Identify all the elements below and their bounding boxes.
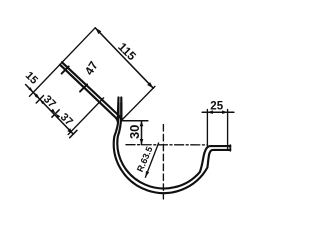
extension line E2 (junction to 115 right arrow) xyxy=(121,86,155,121)
30 dim: top extension line xyxy=(123,120,148,122)
tick on chain at 37/37 division xyxy=(52,110,59,117)
tick on chain at 15/37 division xyxy=(36,96,43,103)
arrowhead 115 right xyxy=(147,82,153,88)
25 dim: right extension line xyxy=(227,110,229,149)
arrowhead chain end xyxy=(67,128,73,134)
svg-text:25: 25 xyxy=(210,100,223,112)
arrowhead 30 top xyxy=(140,121,144,127)
arrowhead 25 left xyxy=(207,110,213,114)
svg-text:115: 115 xyxy=(115,40,139,64)
30 dim line vertical xyxy=(141,121,143,145)
tick on strap (lower) xyxy=(80,84,87,91)
strap lower line (object, sheet edge) xyxy=(62,62,121,120)
svg-text:47: 47 xyxy=(82,59,101,78)
arrow blob chain at 15/37 tick xyxy=(35,94,40,99)
vertical centre line (dashed) xyxy=(162,125,164,200)
strap upper line (object, sheet edge) xyxy=(60,65,119,122)
arrowhead 115 left (at apex) xyxy=(95,28,101,34)
arrowhead 30 bottom xyxy=(140,139,144,145)
tick on strap (upper) xyxy=(62,66,69,73)
arrowhead 25 right xyxy=(222,110,228,114)
dimension line 115 xyxy=(95,28,153,88)
gutter bowl inner line xyxy=(117,103,230,188)
radius leader R63.5 xyxy=(145,143,158,177)
svg-text:R.63.5: R.63.5 xyxy=(135,145,155,173)
extension line E1 (through strap left end, to apex) xyxy=(29,28,95,97)
arrowhead radius leader xyxy=(145,171,149,177)
extension line E3 (strap tick down to chain end) xyxy=(68,98,103,135)
horizontal centre line (dash-dot) xyxy=(126,144,208,146)
25 dim: left extension line xyxy=(206,110,208,147)
arrow blob chain at E1 crossing xyxy=(28,87,33,92)
25 dim line xyxy=(202,111,234,113)
gutter bowl outer line xyxy=(114,103,231,193)
svg-text:30: 30 xyxy=(127,125,142,139)
arrow blob chain at 37/37 tick xyxy=(51,109,56,114)
chain dimension line L1 (15/37/37) xyxy=(26,85,74,135)
tick at chain end xyxy=(70,130,77,137)
svg-text:37: 37 xyxy=(58,111,75,128)
lip right end cap xyxy=(229,145,231,151)
